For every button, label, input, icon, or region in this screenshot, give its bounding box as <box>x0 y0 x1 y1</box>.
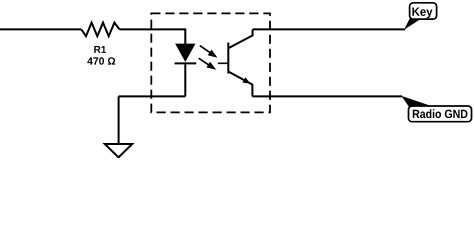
resistor R1 <box>81 23 119 37</box>
label Key <box>412 8 432 19</box>
light emission arrow 1 <box>200 46 218 58</box>
wire cathode rail left out of box <box>119 95 186 97</box>
node Radio GND flag pointer <box>401 96 432 107</box>
wire LED cathode down <box>184 63 186 96</box>
node Key flag box <box>410 3 437 19</box>
node Key flag pointer <box>404 19 421 30</box>
wire left input to resistor <box>0 28 81 30</box>
optocoupler package outline (dashed box) <box>151 13 270 112</box>
node Radio GND flag box <box>409 106 472 122</box>
base stub <box>218 62 229 64</box>
light emission arrow 2 <box>199 58 217 70</box>
emitter lead <box>228 72 252 97</box>
emitter arrow head <box>243 77 251 83</box>
LED (optocoupler emitter diode) <box>175 44 197 63</box>
label Radio GND <box>413 109 468 118</box>
wire resistor to LED anode <box>120 29 186 44</box>
wire emitter to Radio GND <box>252 95 402 97</box>
collector lead <box>228 29 252 48</box>
base bar <box>227 43 229 74</box>
wire ground drop <box>118 96 120 143</box>
label 470 Ω <box>87 57 115 64</box>
wire collector to Key <box>253 28 406 30</box>
phototransistor Q1 <box>218 29 253 96</box>
label R1 <box>94 46 106 53</box>
ground <box>105 144 132 157</box>
